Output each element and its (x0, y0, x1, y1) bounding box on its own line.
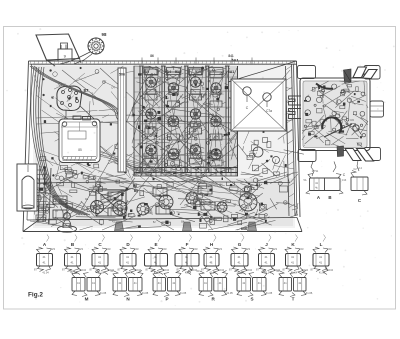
svg-text:T: T (292, 297, 295, 302)
svg-text:41: 41 (185, 255, 189, 259)
svg-text:23.04: 23.04 (108, 269, 115, 272)
svg-text:B: B (328, 195, 331, 200)
paper speckle (6, 28, 395, 306)
svg-text:23.04: 23.04 (246, 269, 253, 272)
svg-text:G: G (238, 242, 242, 247)
trimmer group R (197, 269, 234, 302)
bus wires (34, 113, 293, 183)
trimmer group S (235, 269, 273, 302)
speaker frame (54, 116, 103, 163)
svg-text:41: 41 (70, 255, 74, 259)
tuner tone2 (303, 81, 367, 147)
capacitor pack G (229, 242, 250, 275)
svg-text:C13: C13 (342, 179, 347, 182)
svg-text:41: 41 (237, 261, 241, 265)
cable sweep (30, 66, 122, 120)
column block sides (134, 66, 238, 176)
left wiring extra (41, 66, 134, 172)
dial gear 98 (60, 37, 105, 64)
tuner pack leads (311, 161, 359, 177)
svg-text:41.05: 41.05 (226, 291, 233, 295)
capacitor pack H (201, 242, 222, 275)
under-speaker clutter (45, 159, 106, 197)
electrolytic capacitor (17, 164, 37, 211)
svg-text:41: 41 (291, 255, 295, 259)
capacitor pack A (34, 242, 55, 275)
svg-text:S: S (250, 297, 253, 302)
svg-text:5A: 5A (304, 179, 307, 182)
shield can face (118, 68, 126, 172)
svg-text:41: 41 (70, 261, 74, 265)
svg-text:98: 98 (102, 32, 107, 37)
tuner tone (302, 80, 368, 148)
svg-text:P: P (165, 297, 168, 302)
svg-text:41: 41 (42, 255, 46, 259)
chassis feet (115, 222, 257, 231)
svg-text:J: J (265, 242, 268, 247)
svg-text:23.04: 23.04 (80, 269, 87, 272)
trimmer group M (70, 269, 107, 302)
svg-text:85: 85 (78, 148, 82, 152)
solder points (43, 67, 287, 227)
svg-text:41: 41 (126, 255, 130, 259)
capacitor pack J (256, 242, 277, 275)
svg-text:41: 41 (42, 261, 46, 265)
trimmer group P (151, 269, 187, 302)
svg-text:41: 41 (291, 261, 295, 265)
svg-text:41.04: 41.04 (42, 272, 49, 275)
svg-text:L: L (320, 242, 323, 247)
svg-text:23.04: 23.04 (135, 269, 142, 272)
svg-text:23.04: 23.04 (218, 269, 225, 272)
svg-text:41: 41 (237, 255, 241, 259)
svg-text:86: 86 (150, 54, 154, 58)
trimmer group N (111, 269, 149, 302)
cable bundle (31, 67, 90, 215)
detail pack C (351, 167, 368, 203)
IF column tubes V3 (182, 66, 206, 174)
svg-text:12.4: 12.4 (357, 167, 362, 170)
chassis tone (33, 63, 295, 228)
tuner right tab (370, 101, 384, 117)
svg-text:41: 41 (98, 255, 102, 259)
tube socket S7 (217, 202, 227, 212)
electrolytic face (17, 164, 37, 211)
svg-text:41.05: 41.05 (100, 291, 107, 295)
svg-text:41: 41 (185, 261, 189, 265)
svg-text:41: 41 (319, 261, 323, 265)
top edge line to corner (228, 61, 297, 82)
svg-text:41: 41 (264, 261, 268, 265)
tuner top flaps (344, 67, 378, 83)
tube socket S4 (159, 195, 173, 209)
svg-text:41: 41 (209, 255, 213, 259)
capacitor pack D (118, 242, 139, 275)
svg-text:41: 41 (126, 261, 130, 265)
reference numbers (44, 73, 253, 224)
column tone (134, 66, 238, 176)
svg-text:41.05: 41.05 (306, 291, 313, 295)
tube socket S5 (186, 192, 198, 204)
transformer 87 (57, 86, 97, 121)
IF strip rails (134, 66, 238, 176)
svg-text:E: E (154, 242, 157, 247)
svg-text:41: 41 (98, 261, 102, 265)
svg-text:C7a: C7a (266, 109, 272, 113)
detail pack A B (304, 170, 347, 200)
left tone (35, 66, 134, 188)
converter box face (231, 79, 286, 131)
svg-text:41: 41 (264, 255, 268, 259)
tuner bottom flaps (337, 146, 374, 161)
terminal board (36, 166, 51, 224)
tube socket S1 (91, 201, 104, 214)
tuner body (300, 78, 370, 151)
bracket plate 99 (36, 34, 81, 66)
top edge ticks (142, 54, 252, 64)
svg-text:41.05: 41.05 (266, 291, 273, 295)
speaker frame face (59, 116, 100, 163)
right floor wiring (236, 174, 298, 219)
capacitor pack F (175, 242, 199, 275)
tube socket S6 (239, 193, 257, 211)
svg-text:41: 41 (319, 255, 323, 259)
svg-text:F: F (186, 242, 189, 247)
chassis outline (23, 61, 302, 232)
capacitor pack C (90, 242, 111, 275)
capacitor pack L (311, 242, 332, 275)
parts below converter (237, 129, 304, 177)
inter-row leads (76, 268, 334, 297)
right wall (286, 64, 296, 216)
svg-text:41: 41 (154, 255, 158, 259)
chassis top hatch (30, 61, 295, 64)
converter wiring (244, 87, 294, 178)
IF column tubes V1 (136, 66, 161, 172)
svg-text:41.05: 41.05 (180, 291, 187, 295)
capacitor pack E (145, 242, 168, 275)
bottom band tone (35, 178, 293, 226)
cross cluster (96, 190, 126, 216)
svg-text:23.04: 23.04 (191, 269, 198, 272)
mounting box 9 (58, 43, 72, 61)
column interconnect wires (132, 66, 238, 178)
svg-text:41: 41 (154, 261, 158, 265)
svg-text:23.04: 23.04 (163, 269, 170, 272)
bottom band parts (30, 172, 298, 230)
svg-text:23.04: 23.04 (274, 269, 281, 272)
shield can 506 (118, 68, 126, 172)
trimmer group T (277, 269, 313, 302)
wire fan (61, 130, 247, 213)
svg-text:41.05: 41.05 (142, 291, 149, 295)
svg-text:23.04: 23.04 (302, 269, 309, 272)
converter box 9H (231, 79, 286, 131)
left area wiring (34, 70, 132, 185)
svg-text:27711: 27711 (312, 170, 319, 173)
svg-text:506: 506 (119, 73, 125, 77)
tuner interior (302, 81, 368, 177)
tuner corner pads (298, 66, 381, 162)
svg-text:Fig.2: Fig.2 (28, 292, 43, 299)
tube socket S3 (137, 203, 149, 215)
tube socket S2 (113, 201, 127, 215)
svg-text:841: 841 (228, 54, 234, 58)
capacitor pack B (62, 242, 83, 275)
IF column tubes V2 (160, 66, 184, 172)
tuner connector fingers (289, 96, 302, 119)
pedestal (58, 204, 77, 232)
IF column tubes V4 (201, 66, 228, 172)
chassis long wires (36, 68, 290, 214)
chassis-to-pack leads (47, 235, 326, 242)
svg-text:5A1: 5A1 (231, 58, 239, 63)
svg-text:23.04: 23.04 (327, 269, 334, 272)
capacitor pack K (283, 242, 304, 275)
